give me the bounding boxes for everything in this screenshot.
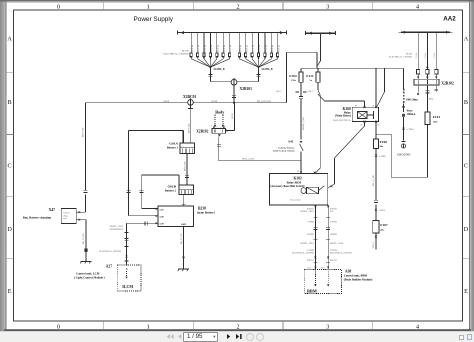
svg-text:4: 4	[416, 323, 419, 330]
svg-text:86: 86	[355, 105, 357, 107]
svg-text:RD50: RD50	[164, 101, 170, 103]
svg-text:BN50: BN50	[212, 100, 219, 103]
svg-text:B: B	[8, 99, 12, 106]
svg-text:x R061: x R061	[379, 210, 387, 212]
svg-text:F1 1.0a: F1 1.0a	[271, 44, 274, 52]
svg-text:1: 1	[211, 126, 212, 128]
svg-text:MAIN: MAIN	[406, 53, 412, 56]
svg-text:x T0B2: x T0B2	[379, 156, 387, 158]
svg-text:F104: F104	[289, 74, 297, 78]
svg-text:F1 1.0a: F1 1.0a	[204, 44, 207, 52]
svg-text:150a: 150a	[433, 121, 439, 124]
svg-text:5/T0NN: 5/T0NN	[307, 250, 314, 252]
svg-text:D: D	[7, 226, 12, 233]
svg-text:1: 1	[217, 127, 218, 129]
svg-text:(Reg): (Reg)	[63, 214, 68, 217]
svg-text:C: C	[8, 163, 12, 170]
svg-text:( Light Control Module ): ( Light Control Module )	[74, 276, 105, 280]
svg-text:BN_25_5W: BN_25_5W	[181, 232, 183, 244]
svg-text:S41: S41	[288, 140, 294, 144]
svg-text:FRONT_AXLE: FRONT_AXLE	[300, 242, 314, 245]
svg-text:F1 1.0a: F1 1.0a	[210, 44, 213, 52]
svg-text:BN_4: BN_4	[373, 241, 375, 247]
svg-text:A: A	[464, 36, 469, 43]
svg-text:x/T0NN: x/T0NN	[307, 222, 314, 224]
svg-text:F1 1.0a: F1 1.0a	[229, 44, 232, 52]
svg-text:ELECTRICAL_CENTER: ELECTRICAL_CENTER	[389, 55, 413, 58]
svg-text:G01A: G01A	[169, 142, 178, 146]
svg-text:X2:1: X2:1	[321, 268, 325, 270]
svg-text:(Main Relay): (Main Relay)	[335, 115, 351, 118]
svg-text:BN16: BN16	[232, 112, 234, 118]
svg-text:5/B0NN: 5/B0NN	[330, 234, 338, 236]
svg-text:85: 85	[361, 124, 363, 126]
svg-text:Battery 1: Battery 1	[167, 147, 179, 150]
svg-text:X2B102: X2B102	[196, 130, 208, 134]
svg-text:A: A	[7, 36, 12, 43]
svg-text:BN4: BN4	[429, 99, 433, 101]
svg-text:unit: unit	[63, 218, 67, 220]
svg-text:G0D: G0D	[181, 223, 186, 226]
svg-text:Control: Control	[63, 213, 70, 215]
svg-text:F1 10a: F1 10a	[416, 53, 418, 59]
svg-text:F107: F107	[380, 223, 388, 227]
svg-text:x2B_2: x2B_2	[308, 91, 314, 93]
svg-text:Power Supply: Power Supply	[134, 16, 174, 23]
svg-text:5LMM_B: 5LMM_B	[214, 68, 225, 71]
svg-text:5LMM_B: 5LMM_B	[262, 68, 273, 71]
svg-text:BN/L_0,5M: BN/L_0,5M	[242, 158, 255, 161]
svg-text:GROUND: GROUND	[397, 152, 411, 156]
svg-text:3: 3	[326, 323, 329, 330]
svg-text:X2B*01: X2B*01	[307, 260, 314, 262]
svg-text:+ -: + -	[180, 188, 183, 190]
svg-text:X1:1: X1:1	[308, 268, 312, 270]
svg-text:Body: Body	[215, 109, 224, 114]
svg-text:Reg. Battery charging: Reg. Battery charging	[23, 215, 52, 219]
svg-text:BN_2,5_RD: BN_2,5_RD	[373, 175, 375, 186]
svg-text:F1 1.0a: F1 1.0a	[197, 44, 200, 52]
svg-text:G01B: G01B	[167, 185, 176, 189]
svg-text:Feb_account: Feb_account	[290, 199, 301, 201]
svg-text:F1 1.0a: F1 1.0a	[239, 44, 242, 52]
svg-text:FRONT_AXLE: FRONT_AXLE	[300, 210, 314, 213]
svg-text:F1 1.0a: F1 1.0a	[191, 44, 194, 52]
svg-text:B230: B230	[198, 207, 206, 211]
svg-text:2: 2	[236, 4, 239, 11]
svg-text:5/B0NN: 5/B0NN	[307, 234, 315, 236]
svg-text:X2BC01: X2BC01	[183, 95, 196, 99]
svg-text:87: 87	[378, 125, 380, 127]
svg-text:(Accessory Base Mini Switch): (Accessory Base Mini Switch)	[270, 185, 304, 188]
svg-text:30: 30	[297, 171, 299, 173]
svg-text:BN_25_RD: BN_25_RD	[83, 233, 85, 244]
svg-text:F1 1.0a: F1 1.0a	[258, 44, 261, 52]
svg-text:3: 3	[326, 4, 329, 11]
svg-text:ELECTRICAL_CENTER: ELECTRICAL_CENTER	[292, 252, 314, 255]
svg-text:30: 30	[372, 105, 374, 107]
svg-text:X2B*01: X2B*01	[307, 208, 314, 210]
svg-text:x/T0NN: x/T0NN	[330, 222, 337, 224]
svg-text:INSTRUMENT: INSTRUMENT	[110, 229, 124, 231]
svg-text:5LCM: 5LCM	[122, 285, 133, 289]
svg-text:(Body Builder Module): (Body Builder Module)	[344, 277, 373, 281]
svg-text:FRONT_AXLE: FRONT_AXLE	[330, 242, 344, 245]
svg-text:X2B101: X2B101	[240, 87, 253, 91]
svg-text:0: 0	[57, 323, 60, 330]
svg-text:C: C	[464, 163, 468, 170]
svg-text:F100: F100	[380, 140, 388, 144]
svg-text:G0?: G0?	[330, 211, 334, 213]
svg-text:2: 2	[225, 126, 226, 128]
svg-text:(with S+lock switch): (with S+lock switch)	[273, 150, 295, 153]
svg-text:BBM: BBM	[307, 288, 317, 293]
svg-text:(main Battery): (main Battery)	[197, 212, 215, 215]
svg-text:4: 4	[416, 4, 419, 11]
svg-text:100mA: 100mA	[407, 112, 417, 116]
svg-text:F1 1.0a: F1 1.0a	[252, 44, 255, 52]
svg-text:FRONT_AXLE: FRONT_AXLE	[110, 225, 124, 228]
svg-text:ELECTRICAL_CENTER: ELECTRICAL_CENTER	[163, 53, 189, 56]
svg-text:F1 1.0a: F1 1.0a	[245, 44, 248, 52]
svg-text:AA2: AA2	[443, 16, 456, 23]
svg-text:1: 1	[147, 323, 150, 330]
svg-text:MAIN_ELECTRICAL: MAIN_ELECTRICAL	[333, 119, 351, 122]
svg-text:X47: X47	[49, 208, 56, 212]
svg-text:+ -: + -	[181, 146, 184, 148]
svg-text:X2B*01: X2B*01	[330, 260, 337, 262]
svg-text:0: 0	[57, 4, 60, 11]
svg-text:F1 1.0a: F1 1.0a	[277, 44, 280, 52]
svg-text:X2B102: X2B102	[441, 81, 454, 85]
svg-text:F1 10a: F1 10a	[434, 53, 436, 59]
svg-text:F101: F101	[433, 115, 441, 119]
svg-text:F121: F121	[306, 74, 314, 78]
svg-text:E: E	[8, 288, 12, 295]
svg-text:x2B_1: x2B_1	[276, 91, 282, 93]
svg-text:F1 1.0a: F1 1.0a	[223, 44, 226, 52]
svg-text:Battery 2: Battery 2	[165, 190, 177, 193]
svg-text:RD25_RD: RD25_RD	[185, 161, 187, 171]
svg-text:600 Ohm: 600 Ohm	[406, 97, 418, 101]
svg-text:Relay ARM: Relay ARM	[287, 181, 302, 185]
svg-text:F1 1.0a: F1 1.0a	[216, 44, 219, 52]
svg-text:RD70_RD: RD70_RD	[189, 123, 191, 133]
svg-text:BN/RD_2,5M: BN/RD_2,5M	[303, 117, 305, 130]
svg-text:170a: 170a	[291, 79, 297, 82]
svg-text:5/T0NN: 5/T0NN	[330, 250, 337, 252]
svg-text:E: E	[464, 288, 468, 295]
svg-text:B: B	[464, 99, 468, 106]
svg-text:F1 10a: F1 10a	[425, 53, 427, 59]
svg-text:BN_0,5L2/1M: BN_0,5L2/1M	[257, 101, 271, 103]
svg-text:x T0B1: x T0B1	[407, 129, 415, 131]
svg-text:F1 1.0a: F1 1.0a	[265, 44, 268, 52]
svg-text:ELECTRICAL_CENTER: ELECTRICAL_CENTER	[330, 252, 352, 255]
svg-text:2: 2	[221, 127, 222, 129]
svg-text:X2B*01: X2B*01	[330, 208, 337, 210]
svg-text:2: 2	[236, 323, 239, 330]
svg-text:RD25_RD: RD25_RD	[83, 127, 85, 137]
svg-text:A27: A27	[106, 264, 112, 268]
svg-text:ELECTRICAL_CENTER: ELECTRICAL_CENTER	[99, 250, 121, 253]
svg-text:1: 1	[147, 4, 150, 11]
svg-text:D: D	[464, 226, 469, 233]
